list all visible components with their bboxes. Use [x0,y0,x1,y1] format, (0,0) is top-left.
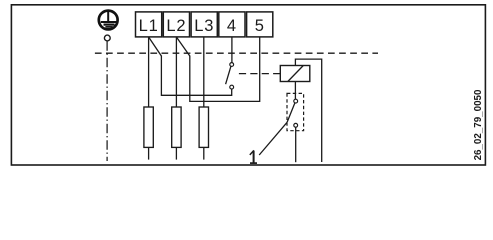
contact blade K1 pole 2 [176,37,189,56]
wire limiter bottom [295,127,297,162]
svg-text:5: 5 [255,17,265,35]
svg-text:L2: L2 [166,17,186,35]
wire L2 to heating element E2 [175,37,177,107]
svg-text:L3: L3 [194,17,214,35]
leader line for label 1 [259,122,287,155]
mechanical linkage dashed line to relay coil [239,73,280,75]
heating element E2 [172,107,181,160]
relay coil K1 [280,66,310,82]
safety temperature limiter dashed box [287,93,304,130]
limiter top terminal [294,99,298,103]
terminal L3 [191,12,217,37]
thermostat contact blade [226,66,231,84]
limiter blade [287,103,295,122]
wire L1 to heating element E1 [148,37,150,107]
wire L3 to heating element E3 [203,37,205,107]
PE dash-dot conductor line [106,41,108,161]
boundary dashed line (mechanical linkage, upper) [95,52,378,54]
contact blade K1 pole 1 [149,37,162,56]
thermostat contact bottom terminal [230,85,234,89]
heating element E3 [199,107,208,160]
wire blade2 output to terminal 5 [190,37,260,102]
heating element E1 [144,107,153,160]
protective earth symbol PE [99,11,118,30]
limiter bottom terminal [294,123,298,127]
wire blade1 output to switch bottom contact [161,56,231,96]
wire relay coil top to supply [295,59,321,162]
svg-text:L1: L1 [139,17,159,35]
terminal 5 [247,12,273,37]
svg-text:26_02_79_0050: 26_02_79_0050 [473,89,484,160]
terminal L1 [136,12,162,37]
thermostat contact top terminal [230,63,234,67]
terminal L2 [163,12,189,37]
label 1 (safety temperature limiter) [250,150,257,163]
wire terminal 4 to thermostat contact [231,37,233,63]
wire relay coil bottom to limiter [294,82,296,100]
svg-text:4: 4 [227,17,237,35]
border frame [11,5,485,165]
PE terminal circle [104,35,110,41]
terminal 4 [219,12,245,37]
